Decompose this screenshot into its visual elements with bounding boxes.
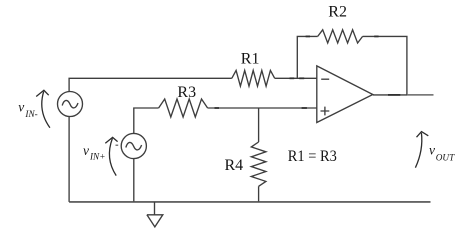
op-amp U1 [317,66,373,123]
source v_IN+ [121,133,146,158]
wire: R4 bottom lead to ground bus [258,186,260,202]
junction tick marks [290,77,295,79]
op-amp plus symbol [321,107,330,116]
arrow for v_IN- [42,92,50,128]
wire: v_IN+ top lead up and right to R3 [134,108,159,134]
wire: R2 right lead down to output node [363,36,407,95]
svg-text:IN-: IN- [24,109,37,119]
wire: v_IN- bottom lead down to bus [68,117,70,202]
wire: R4 top lead down from plus line [258,108,260,142]
op-amp minus symbol [321,78,329,80]
svg-text:v: v [429,143,435,158]
resistor R3 [159,99,208,117]
arrow for v_OUT [415,133,421,168]
svg-text:R1 = R3: R1 = R3 [288,148,337,165]
wire: v_IN+ bottom lead down to bus [133,159,135,202]
resistor R1 [232,70,275,86]
resistor R2 [318,30,363,43]
wire: bottom ground bus [69,201,430,203]
wire: v_IN- top lead up and right to R1 [69,78,232,91]
source v_IN- [58,92,83,117]
svg-text:R3: R3 [177,84,196,101]
svg-text:R2: R2 [328,4,347,21]
svg-text:R4: R4 [225,157,244,174]
wire: R1 to op-amp inverting input [275,77,317,79]
svg-text:OUT: OUT [436,153,455,163]
svg-text:R1: R1 [241,50,260,67]
svg-text:IN+: IN+ [89,152,105,162]
svg-text:v: v [18,100,24,115]
wire: feedback tap up from node to R2 [297,36,317,78]
wire: R3 to op-amp non-inverting input [208,107,317,109]
arrow for v_IN+ [109,138,116,175]
resistor R4 [251,142,266,186]
svg-text:v: v [83,143,89,158]
ground [147,202,163,227]
wire: op-amp output [373,94,407,96]
